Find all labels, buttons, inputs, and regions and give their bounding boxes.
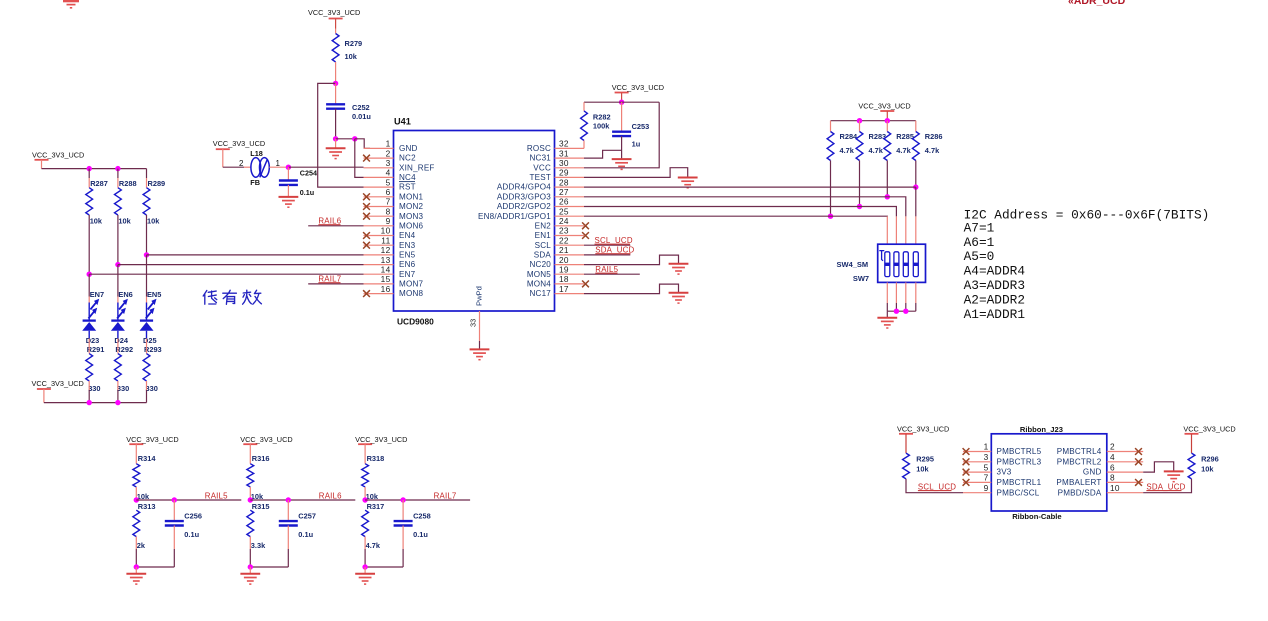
wire LED bottom rail	[44, 402, 147, 404]
wire junction to C256	[173, 500, 175, 521]
svg-text:A1=ADDR1: A1=ADDR1	[964, 307, 1026, 322]
svg-text:XIN_REF: XIN_REF	[399, 163, 435, 172]
pin 20 NC20 stub	[555, 264, 585, 266]
wire R293 to bottom rail	[146, 381, 148, 390]
junction VCC/R282 rail	[619, 100, 624, 105]
resistor R285	[884, 132, 891, 161]
IC U41 UCD9080	[394, 131, 555, 312]
svg-text:EN3: EN3	[399, 241, 416, 250]
wire L18 pin 1 to junction	[269, 166, 288, 168]
svg-text:VCC_3V3_UCD: VCC_3V3_UCD	[32, 379, 84, 388]
wire R316 to junction	[249, 487, 251, 500]
pin 10 PMBD/SDA stub	[1107, 492, 1143, 494]
junction rail/R283	[857, 118, 862, 123]
no-connect X pin 8	[1135, 479, 1142, 486]
pin 15 MON7 stub	[364, 283, 394, 285]
wire rail to R287	[88, 169, 90, 178]
svg-text:330: 330	[117, 384, 129, 393]
junction R285 column	[885, 194, 890, 199]
svg-text:A2=ADDR2: A2=ADDR2	[964, 292, 1025, 307]
svg-text:VCC_3V3_UCD: VCC_3V3_UCD	[1183, 425, 1235, 434]
junction rail/R288	[115, 166, 120, 171]
svg-text:R288: R288	[119, 179, 137, 188]
svg-text:28: 28	[559, 177, 569, 187]
wire C256 to bottom node	[173, 526, 175, 550]
wire R318 to junction	[364, 487, 366, 500]
wire ADDR3/GPO3 pin 27 to switch	[584, 196, 887, 198]
pin 7 PMBCTRL1 stub	[963, 481, 991, 483]
junction bottom rail D24	[115, 400, 120, 405]
svg-text:RAIL5: RAIL5	[205, 492, 228, 501]
pin 3 XIN_REF stub	[364, 167, 394, 169]
junction EN5 net	[144, 252, 149, 257]
pin 2 NC2 stub	[364, 157, 394, 159]
svg-text:2: 2	[1110, 442, 1115, 452]
svg-text:A4=ADDR4: A4=ADDR4	[964, 264, 1026, 279]
wire bottom node R317/C258	[365, 566, 403, 568]
wire NC20 pin 20 to ground	[584, 255, 679, 265]
svg-text:R283: R283	[869, 132, 887, 141]
ground (C253)	[612, 159, 632, 169]
wire bottom node R315/C257	[250, 566, 288, 568]
svg-text:26: 26	[559, 197, 569, 207]
svg-text:I2C Address = 0x60---0x6F(7BIT: I2C Address = 0x60---0x6F(7BITS)	[964, 208, 1210, 223]
capacitor C253	[612, 132, 631, 136]
wire rail to R283	[859, 121, 861, 132]
svg-text:A3=ADDR3: A3=ADDR3	[964, 278, 1025, 293]
wire junction to C254	[287, 167, 289, 180]
svg-text:10k: 10k	[345, 52, 358, 61]
svg-text:VCC_3V3_UCD: VCC_3V3_UCD	[897, 425, 949, 434]
wire net RAIL6	[250, 499, 355, 501]
wire ADDR2/GPO2 pin 26 to switch	[584, 206, 860, 208]
pin 6 GND stub	[1107, 471, 1143, 473]
wire NC31 pin 31 to C253 ground node	[584, 150, 622, 158]
svg-text:R279: R279	[345, 39, 363, 48]
svg-text:10k: 10k	[1201, 465, 1214, 474]
ground (TEST)	[678, 178, 698, 188]
svg-text:2k: 2k	[137, 541, 146, 550]
pin 27 ADDR3/GPO3 stub	[555, 196, 585, 198]
resistor R286	[912, 132, 919, 161]
svg-text:22: 22	[559, 235, 569, 245]
junction RAIL6/C257	[286, 497, 291, 502]
svg-text:2: 2	[386, 148, 391, 158]
svg-text:C252: C252	[352, 103, 370, 112]
wire net SDA_UCD from SDA pin 21	[584, 254, 630, 256]
resistor R283	[856, 132, 863, 161]
partial ground symbol top-left	[63, 1, 79, 8]
wire R291 to bottom rail	[88, 381, 90, 390]
svg-text:24: 24	[559, 216, 569, 226]
svg-text:D24: D24	[114, 336, 128, 345]
svg-text:EN2: EN2	[535, 221, 552, 230]
svg-text:RAIL6: RAIL6	[319, 492, 342, 501]
ground (switch)	[877, 318, 897, 328]
wire R313 to bottom node	[135, 537, 137, 549]
junction bottom node (R315)	[248, 564, 253, 569]
svg-text:RAIL6: RAIL6	[318, 217, 341, 226]
resistor R296	[1188, 453, 1195, 479]
junction RAIL5 node	[134, 497, 139, 502]
wire C258 to bottom node	[402, 526, 404, 550]
node A junction	[352, 136, 357, 141]
svg-text:R295: R295	[916, 455, 934, 464]
wire R287 to junction	[88, 215, 90, 274]
wire C253 stem	[621, 102, 623, 132]
svg-text:1: 1	[984, 442, 989, 452]
svg-text:RAIL7: RAIL7	[434, 492, 457, 501]
wire ground node to node A	[336, 138, 355, 140]
svg-text:A7=1: A7=1	[964, 220, 995, 235]
svg-text:EN8/ADDR1/GPO1: EN8/ADDR1/GPO1	[478, 212, 551, 221]
wire junction to C252	[335, 83, 337, 104]
svg-text:EN7: EN7	[399, 270, 416, 279]
wire R283 down to junction	[859, 161, 861, 207]
svg-text:ADDR3/GPO3: ADDR3/GPO3	[497, 192, 551, 201]
svg-text:8: 8	[386, 206, 391, 216]
junction RAIL6 node	[248, 497, 253, 502]
no-connect X pin 23	[582, 232, 589, 239]
pin 18 MON4 stub	[555, 283, 585, 285]
wire rail to R284	[830, 121, 832, 132]
wire GND pin 6 to ground	[1143, 462, 1174, 472]
svg-text:R318: R318	[367, 454, 385, 463]
svg-text:SW7: SW7	[853, 274, 869, 283]
svg-text:2: 2	[239, 159, 244, 168]
wire LED top rail	[42, 168, 147, 170]
svg-text:EN6: EN6	[118, 290, 132, 299]
wire C257 to bottom node	[287, 526, 289, 550]
wire rail R282/C253/VCC	[584, 101, 659, 103]
wire junction to C258	[402, 500, 404, 521]
no-connect X pin 3	[963, 458, 970, 465]
wire EN6 to U41	[118, 264, 364, 266]
svg-text:17: 17	[559, 284, 569, 294]
svg-text:33: 33	[469, 319, 478, 327]
svg-text:7: 7	[386, 197, 391, 207]
junction L18/C254/XIN_REF	[286, 165, 291, 170]
svg-text:ADDR2/GPO2: ADDR2/GPO2	[497, 202, 551, 211]
svg-text:PMBCTRL1: PMBCTRL1	[997, 478, 1042, 487]
svg-text:PMBD/SDA: PMBD/SDA	[1058, 488, 1102, 497]
svg-text:100k: 100k	[593, 121, 610, 130]
svg-text:20: 20	[559, 255, 569, 265]
svg-text:A6=1: A6=1	[964, 235, 995, 250]
svg-text:RAIL5: RAIL5	[595, 265, 618, 274]
svg-text:3: 3	[386, 158, 391, 168]
ground (R313)	[126, 574, 146, 584]
LED D23	[82, 299, 99, 339]
wire rail to R286	[915, 121, 917, 132]
svg-text:GND: GND	[1083, 468, 1102, 477]
svg-text:L18: L18	[250, 149, 263, 158]
svg-text:10k: 10k	[147, 216, 160, 225]
svg-text:NC20: NC20	[530, 260, 552, 269]
svg-text:18: 18	[559, 274, 569, 284]
svg-text:PMBCTRL5: PMBCTRL5	[997, 447, 1042, 456]
svg-text:25: 25	[559, 206, 569, 216]
svg-text:RAIL7: RAIL7	[318, 275, 341, 284]
pin 11 EN3 stub	[364, 244, 394, 246]
svg-text:D23: D23	[86, 336, 100, 345]
wire junction to C257	[287, 500, 289, 521]
LED D25	[140, 299, 157, 339]
wire C254 to ground	[287, 185, 289, 197]
svg-text:VCC_3V3_UCD: VCC_3V3_UCD	[213, 139, 265, 148]
svg-text:C254: C254	[300, 169, 317, 178]
junction R284 column	[828, 214, 833, 219]
no-connect X pin 2	[363, 155, 370, 162]
junction R279/C252/RST	[333, 81, 338, 86]
svg-text:VCC_3V3_UCD: VCC_3V3_UCD	[126, 435, 178, 444]
wire EN5 to U41	[147, 254, 364, 256]
ground (R317)	[355, 574, 375, 584]
svg-text:VCC: VCC	[533, 163, 551, 172]
LED D24	[111, 299, 128, 339]
capacitor C254	[279, 181, 298, 185]
wire PwPd to ground	[479, 311, 481, 341]
svg-text:5: 5	[984, 462, 989, 472]
svg-text:8: 8	[1110, 473, 1115, 483]
svg-text:10: 10	[1110, 483, 1120, 493]
capacitor C252	[326, 104, 345, 108]
wire ADDR4/GPO4 pin 28 to switch	[584, 186, 916, 188]
svg-text:31: 31	[559, 148, 569, 158]
wire VCC to R279	[335, 29, 337, 34]
no-connect X pin 24	[582, 222, 589, 229]
resistor R295	[903, 453, 910, 479]
svg-text:0.01u: 0.01u	[352, 112, 371, 121]
wire C253 to ground	[621, 136, 623, 159]
svg-text:VCC_3V3_UCD: VCC_3V3_UCD	[612, 83, 664, 92]
svg-text:5: 5	[386, 177, 391, 187]
svg-text:23: 23	[559, 226, 569, 236]
pin 8 PMBALERT stub	[1107, 481, 1143, 483]
svg-text:VCC_3V3_UCD: VCC_3V3_UCD	[355, 435, 407, 444]
wires switch to ground bus	[886, 282, 888, 303]
svg-text:1: 1	[386, 139, 391, 149]
svg-text:3.3k: 3.3k	[251, 541, 266, 550]
pin 3 PMBCTRL3 stub	[963, 461, 991, 463]
wire R282 to ROSC pin 32	[583, 141, 585, 149]
wire junction to XIN_REF pin 3	[288, 166, 363, 168]
wire VCC pin 30 to rail	[584, 102, 659, 168]
svg-text:EN5: EN5	[399, 251, 416, 260]
wire C252 to ground node	[335, 109, 337, 139]
no-connect X pin 2	[1135, 448, 1142, 455]
svg-text:MON6: MON6	[399, 221, 423, 230]
svg-text:C258: C258	[413, 512, 431, 521]
svg-text:SW4_SM: SW4_SM	[837, 260, 869, 269]
svg-text:Ribbon-Cable: Ribbon-Cable	[1012, 512, 1061, 521]
pin 17 NC17 stub	[555, 293, 585, 295]
svg-text:R289: R289	[148, 179, 166, 188]
pin 31 NC31 stub	[555, 157, 585, 159]
wire EN8/ADDR1/GPO1 pin 25 to switch	[584, 215, 831, 217]
wire R284 down to junction	[830, 161, 832, 217]
svg-text:EN7: EN7	[90, 290, 104, 299]
svg-text:29: 29	[559, 168, 569, 178]
svg-text:Ribbon_J23: Ribbon_J23	[1020, 425, 1063, 434]
junction bottom rail D23	[87, 400, 92, 405]
note text di-you-xiao (active low)	[203, 290, 261, 304]
wire pullup rail	[831, 120, 916, 122]
ground (R315)	[240, 574, 260, 584]
wire R296 to PMBD/SDA pin 10	[1143, 479, 1191, 493]
wire junction down to LED D25	[146, 255, 148, 297]
svg-text:MON5: MON5	[527, 270, 551, 279]
svg-text:VCC_3V3_UCD: VCC_3V3_UCD	[308, 8, 360, 17]
svg-text:C257: C257	[298, 512, 316, 521]
inductor/ferrite L18	[251, 158, 269, 178]
wire R285 down to junction	[886, 161, 888, 197]
svg-text:MON3: MON3	[399, 212, 423, 221]
capacitor C257	[279, 521, 298, 525]
svg-text:R287: R287	[90, 179, 108, 188]
pin 7 MON2 stub	[364, 206, 394, 208]
ground bus under switch	[887, 310, 916, 312]
pin 2 PMBCTRL4 stub	[1107, 451, 1143, 453]
wire junction down to LED D23	[88, 274, 90, 296]
pin 24 EN2 stub	[555, 225, 585, 227]
wire bottom node to ground	[249, 567, 251, 574]
junction bottom node (R313)	[134, 564, 139, 569]
wire R314 to junction	[135, 487, 137, 500]
svg-text:R285: R285	[896, 132, 914, 141]
svg-text:NC31: NC31	[530, 154, 552, 163]
svg-text:330: 330	[146, 384, 158, 393]
svg-text:MON2: MON2	[399, 202, 423, 211]
svg-text:0.1u: 0.1u	[298, 530, 313, 539]
svg-text:13: 13	[381, 255, 391, 265]
svg-text:PMBCTRL3: PMBCTRL3	[997, 457, 1042, 466]
clipped net label top-right	[1068, 0, 1126, 7]
node C252 ground junction	[333, 136, 338, 141]
svg-text:27: 27	[559, 187, 569, 197]
pin 23 EN1 stub	[555, 235, 585, 237]
wire node A to NC4 pin 4	[355, 139, 364, 178]
wire R279 to junction	[335, 62, 337, 83]
junction bus 2	[903, 309, 908, 314]
svg-text:10k: 10k	[118, 216, 131, 225]
pin 1 GND stub	[364, 147, 394, 149]
no-connect X pin 5	[963, 469, 970, 476]
no-connect X pin 6	[363, 193, 370, 200]
svg-text:ADDR4/GPO4: ADDR4/GPO4	[497, 183, 551, 192]
svg-text:MON7: MON7	[399, 280, 423, 289]
svg-text:U41: U41	[394, 117, 411, 127]
pin 14 EN7 stub	[364, 273, 394, 275]
capacitor C258	[394, 521, 413, 525]
no-connect X pin 1	[963, 448, 970, 455]
no-connect X pin 10	[363, 232, 370, 239]
wire VCC to L18 pin 2	[223, 166, 244, 168]
resistor R287	[86, 188, 93, 215]
svg-text:MON8: MON8	[399, 289, 423, 298]
pin 4 NC4 stub	[364, 176, 394, 178]
svg-text:12: 12	[381, 245, 391, 255]
svg-text:EN6: EN6	[399, 260, 416, 269]
svg-text:ROSC: ROSC	[527, 144, 551, 153]
ground (NC20)	[669, 264, 689, 274]
svg-text:R313: R313	[138, 502, 156, 511]
wire rail to R285	[886, 121, 888, 132]
wire R288 to junction	[117, 215, 119, 265]
pin 32 ROSC stub	[555, 147, 585, 149]
wire rail to R282	[583, 102, 585, 111]
svg-text:PMBCTRL4: PMBCTRL4	[1057, 447, 1102, 456]
resistor R279	[332, 34, 339, 63]
svg-text:PMBC/SCL: PMBC/SCL	[997, 488, 1040, 497]
wire bottom node to ground	[364, 567, 366, 574]
svg-text:3: 3	[984, 452, 989, 462]
pin 28 ADDR4/GPO4 stub	[555, 186, 585, 188]
resistor R289	[143, 188, 150, 215]
svg-text:SCL: SCL	[535, 241, 552, 250]
svg-text:R316: R316	[252, 454, 270, 463]
svg-text:7: 7	[984, 473, 989, 483]
svg-text:R282: R282	[593, 112, 611, 121]
svg-text:330: 330	[88, 384, 100, 393]
wire junction down to LED D24	[117, 265, 119, 297]
wire net SCL_UCD from SCL pin 22	[584, 244, 630, 246]
svg-text:4.7k: 4.7k	[896, 146, 911, 155]
wire NC17 pin 17 to ground	[584, 284, 679, 294]
wire bottom node to ground	[135, 567, 137, 574]
wire EN7 to U41	[89, 273, 363, 275]
junction EN6 net	[115, 262, 120, 267]
no-connect X pin 7	[363, 203, 370, 210]
svg-text:PwPd: PwPd	[475, 286, 484, 306]
svg-text:3V3: 3V3	[997, 468, 1012, 477]
svg-text:0.1u: 0.1u	[300, 188, 314, 197]
svg-text:30: 30	[559, 158, 569, 168]
junction bottom node (R317)	[362, 564, 367, 569]
ground (C254)	[279, 197, 299, 207]
wire TEST pin 29 to ground	[584, 168, 688, 178]
junction rail/R287	[87, 166, 92, 171]
svg-text:VCC_3V3_UCD: VCC_3V3_UCD	[858, 102, 910, 111]
resistor R284	[827, 132, 834, 161]
ground (PwPd)	[470, 349, 490, 359]
pin 10 EN4 stub	[364, 235, 394, 237]
svg-text:GND: GND	[399, 144, 418, 153]
wire net RAIL5	[136, 499, 241, 501]
svg-text:4.7k: 4.7k	[925, 146, 940, 155]
svg-text:15: 15	[381, 274, 391, 284]
svg-text:NC2: NC2	[399, 154, 416, 163]
resistor R288	[115, 188, 122, 215]
svg-text:6: 6	[386, 187, 391, 197]
wire rail to R288	[117, 169, 119, 178]
wire R292 to bottom rail	[117, 381, 119, 390]
pin 12 EN5 stub	[364, 254, 394, 256]
pin 19 MON5 stub	[555, 273, 585, 275]
svg-text:R315: R315	[252, 502, 270, 511]
svg-text:11: 11	[381, 235, 390, 245]
svg-text:SDA_UCD: SDA_UCD	[1146, 482, 1185, 491]
svg-text:10k: 10k	[916, 465, 929, 474]
pin 1 PMBCTRL5 stub	[963, 451, 991, 453]
svg-text:14: 14	[381, 264, 391, 274]
junction RAIL7/C258	[400, 497, 405, 502]
pin 9 MON6 stub	[364, 225, 394, 227]
svg-text:C256: C256	[184, 512, 202, 521]
svg-text:10k: 10k	[90, 216, 103, 225]
svg-text:A5=0: A5=0	[964, 249, 995, 264]
switch SW7 SW4_SM	[878, 244, 926, 282]
